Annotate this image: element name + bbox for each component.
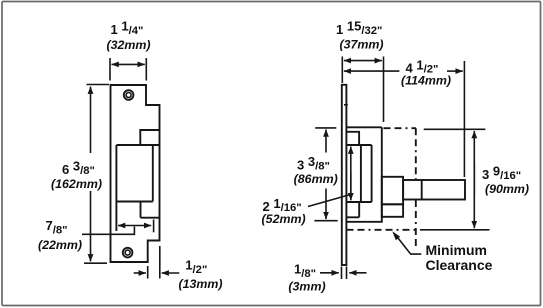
leader 7/8 (82, 227, 134, 235)
svg-text:1 1/4": 1 1/4" (111, 19, 144, 37)
dimension arrow 1 15/32 (344, 60, 382, 62)
svg-text:7/8": 7/8" (46, 218, 68, 236)
upper bracket (346, 132, 359, 145)
extension line top 3 9/16 (424, 128, 486, 130)
extension lines 3 3/8 (314, 128, 337, 221)
extension lines 1 1/4 dim (110, 58, 146, 81)
arrow right 1/8 (349, 272, 366, 274)
svg-text:(22mm): (22mm) (38, 238, 82, 252)
svg-text:(37mm): (37mm) (339, 37, 383, 51)
cavity right edge (152, 145, 154, 202)
svg-text:6 3/8": 6 3/8" (62, 159, 95, 177)
body right edge (381, 127, 383, 222)
channel inner verticals (361, 145, 372, 202)
dimension arrow 2 1/16 (inside body) (350, 147, 352, 200)
extension line bottom right (solid part) (420, 229, 490, 231)
svg-text:(90mm): (90mm) (485, 182, 529, 196)
lower notch step (141, 202, 160, 218)
extension line bottom 6 3/8 (84, 262, 107, 264)
cavity bottom (116, 201, 152, 203)
dashed clearance bottom (347, 229, 416, 231)
arrow right 1/2 (162, 272, 180, 274)
svg-text:1/2": 1/2" (185, 258, 207, 276)
screw tick on faceplate edge (344, 104, 348, 106)
extension lines 1/2 dim (148, 246, 160, 279)
bottom screw hole (123, 248, 133, 258)
arrow left 4 1/2 (344, 70, 400, 72)
extension line top 6 3/8 (87, 84, 110, 86)
keeper support block (382, 177, 403, 205)
extension line right of 7/8 dim (153, 220, 155, 233)
svg-text:(52mm): (52mm) (262, 212, 306, 226)
body top (346, 126, 382, 128)
dimension line 3 3/8 upper (325, 130, 327, 153)
extension line right 1 15/32 (383, 57, 385, 123)
arrow left 1/2 (134, 272, 146, 274)
dashed clearance top (384, 127, 417, 129)
minimum clearance leader (396, 236, 421, 255)
dimension line 6 3/8 upper segment (90, 87, 92, 153)
dimension line 3 9/16 (473, 131, 475, 195)
lower block (382, 204, 403, 217)
arrow left 1/8 (320, 272, 339, 274)
dimension line 3 3/8 lower (325, 189, 327, 220)
svg-text:(32mm): (32mm) (106, 38, 150, 52)
svg-text:(114mm): (114mm) (401, 73, 451, 87)
cavity left edge / extension (115, 145, 117, 231)
lower bracket (346, 202, 359, 217)
channel bottom line (346, 201, 372, 203)
top screw hole (124, 90, 134, 100)
leader 2 1/16 (308, 195, 351, 207)
lip top line (116, 144, 159, 146)
svg-text:(13mm): (13mm) (178, 277, 222, 291)
body bottom (346, 221, 383, 223)
extension lines 1/8 (342, 267, 347, 280)
svg-text:(3mm): (3mm) (288, 280, 325, 294)
svg-text:1/8": 1/8" (294, 262, 316, 280)
dimension line 6 3/8 lower segment (90, 191, 92, 261)
svg-text:1 15/32": 1 15/32" (336, 19, 382, 37)
keeper bar (403, 180, 465, 200)
faceplate outline (111, 85, 160, 262)
svg-text:(86mm): (86mm) (294, 172, 338, 186)
upper notch step (140, 130, 159, 145)
dashed clearance vertical (415, 128, 417, 247)
extension line right 4 1/2 (463, 61, 465, 177)
svg-text:3 3/8": 3 3/8" (297, 154, 330, 172)
svg-text:(162mm): (162mm) (51, 177, 102, 191)
extension line left 1 15/32 (341, 57, 343, 84)
svg-text:Minimum: Minimum (426, 242, 487, 258)
arrow right 4 1/2 (447, 70, 463, 72)
channel top line (346, 144, 372, 146)
faceplate edge-on (342, 85, 347, 265)
svg-text:3 9/16": 3 9/16" (482, 164, 521, 182)
keeper bar divider (421, 180, 423, 200)
dimension arrow 7/8 (118, 225, 151, 227)
dimension arrow 1 1/4 (112, 63, 145, 65)
svg-text:Clearance: Clearance (426, 257, 493, 273)
